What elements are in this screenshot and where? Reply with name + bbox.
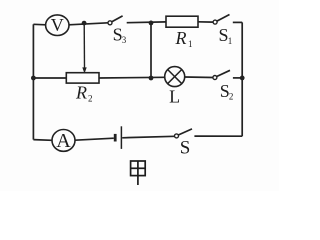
- svg-text:2: 2: [88, 94, 93, 104]
- svg-text:R: R: [175, 28, 187, 48]
- svg-text:1: 1: [188, 39, 193, 49]
- svg-text:A: A: [56, 130, 71, 152]
- svg-text:2: 2: [229, 92, 234, 102]
- svg-text:S: S: [180, 138, 191, 159]
- svg-text:L: L: [169, 86, 180, 106]
- svg-text:R: R: [75, 83, 87, 103]
- svg-text:1: 1: [228, 36, 233, 46]
- svg-text:3: 3: [122, 35, 127, 45]
- svg-text:V: V: [51, 15, 64, 35]
